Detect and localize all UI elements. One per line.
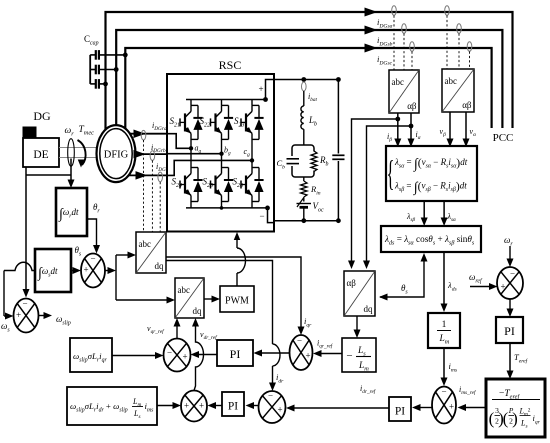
svg-text:αβ: αβ [347, 278, 357, 288]
label theta_s out [75, 245, 82, 258]
wire i_beta tap [348, 117, 400, 269]
wire i_ms [441, 348, 448, 386]
summing junction v_dr [181, 391, 207, 422]
block PI q-axis [217, 340, 253, 366]
summing junction v_qr [164, 339, 191, 372]
summing junction omega [14, 299, 39, 333]
rotor sensor a [141, 130, 146, 232]
summing junction i_dr [259, 391, 286, 424]
voltage sensor at x=469.5 [467, 42, 472, 69]
label i_qr [304, 316, 312, 328]
torque reference formula box [486, 379, 545, 437]
svg-text:+: + [277, 405, 282, 415]
dc link capacitor [332, 80, 344, 221]
voltage sensor at x=447 [445, 6, 450, 69]
label i_DGrb [151, 143, 166, 154]
wire theta_s out [71, 267, 81, 274]
torque arrow [78, 140, 86, 168]
capacitor C_b [287, 156, 300, 166]
IGBT S26 [241, 168, 264, 208]
wire v_alpha [463, 112, 470, 147]
svg-text:αβ: αβ [407, 101, 417, 111]
label v_dr_ref [200, 330, 218, 341]
wire omega_r DE [23, 167, 72, 298]
integrator theta_r box [56, 188, 87, 236]
wire omega_s [4, 262, 35, 319]
label + dc [258, 84, 263, 94]
svg-text:PI: PI [504, 324, 515, 338]
svg-text:+: + [305, 351, 310, 361]
RSC dc+ bus [186, 80, 274, 102]
block -Ls/Lm [342, 338, 376, 373]
svg-text:DG: DG [33, 109, 51, 123]
label i_dr_ref [360, 384, 377, 395]
label S21 [170, 116, 180, 129]
summing junction theta [81, 254, 105, 288]
wire i_ms_ref [458, 404, 487, 411]
summing junction speed [497, 267, 523, 299]
svg-text:+: + [258, 84, 263, 94]
block U2 abc-alphabeta [442, 69, 474, 112]
label i_beta [387, 132, 392, 143]
flux estimator box [386, 146, 477, 201]
label T_eref [514, 352, 529, 364]
block PI d-axis [222, 392, 244, 416]
block PWM [220, 286, 254, 312]
block abc-dq 2 [175, 278, 204, 318]
label S24 [172, 177, 182, 190]
svg-text:−: − [90, 254, 95, 264]
compensation box d [67, 387, 157, 425]
wire theta_s [379, 253, 428, 301]
label i_DGrc [156, 162, 171, 173]
wire phase c_g [167, 160, 252, 175]
wire theta_slip [116, 252, 175, 304]
wire lambda_sbeta [421, 201, 428, 226]
svg-text:−: − [259, 211, 264, 221]
wire stator phase b [116, 26, 502, 129]
wire v_beta [447, 112, 454, 147]
wire speed err [507, 299, 514, 317]
wire leg 0 mid [189, 139, 193, 167]
shaft [59, 148, 97, 158]
svg-text:+: + [199, 401, 204, 411]
label i_alpha [416, 130, 421, 141]
svg-text:PWM: PWM [225, 296, 249, 307]
wire i_beta [394, 113, 401, 147]
svg-text:PI: PI [230, 347, 241, 361]
svg-text:abc: abc [392, 77, 405, 87]
svg-text:−: − [510, 269, 515, 279]
svg-text:1: 1 [442, 320, 447, 330]
wire i_qr_ref [313, 350, 342, 357]
label R_in [310, 184, 321, 196]
svg-text:−: − [268, 391, 273, 401]
wire omega_r [507, 246, 514, 267]
label c_g [244, 147, 251, 158]
svg-text:): ) [512, 409, 518, 428]
wire phase b_g [167, 153, 222, 155]
block abc-dq 1 [136, 232, 166, 273]
wire omega_slip [38, 312, 52, 319]
battery sensor i_bat [302, 82, 307, 91]
label T_mec [79, 125, 95, 137]
svg-text:+: + [449, 402, 454, 412]
svg-text:dq: dq [364, 304, 374, 314]
svg-text:DE: DE [33, 149, 48, 161]
capacitor bank C_cap [90, 50, 128, 89]
IGBT S21 [180, 100, 203, 140]
svg-text:abc: abc [178, 285, 191, 295]
wire to PI3 [412, 404, 432, 411]
block U1 abc-alphabeta [389, 70, 419, 113]
label i_DGsa [377, 17, 393, 29]
label - dc [259, 211, 264, 221]
svg-text:RSC: RSC [219, 58, 242, 72]
current sensor at x=412 [410, 42, 415, 70]
label v_alpha [470, 127, 477, 138]
svg-text:{: { [387, 154, 395, 194]
RSC box [167, 74, 274, 232]
wire stator phase a [106, 8, 513, 130]
current sensor at x=404 [402, 24, 407, 70]
wire v_qr_ref [174, 318, 181, 339]
voltage sensor at x=459 [457, 24, 462, 69]
label S22 [200, 116, 210, 129]
label lambda_sbeta [406, 212, 416, 223]
svg-text:+: + [500, 282, 505, 292]
label theta_r [93, 202, 100, 215]
label DG [33, 109, 51, 123]
wire PWM to RSC [234, 232, 246, 286]
label omega_slip [56, 314, 71, 327]
svg-text:−: − [441, 387, 446, 397]
IGBT S24 [180, 168, 203, 208]
wire rotor phase a [130, 129, 167, 138]
label L_b [308, 115, 317, 128]
label C_b [277, 158, 286, 170]
rotor sensor b [150, 151, 155, 232]
label S23 [234, 116, 244, 129]
svg-text:−: − [22, 299, 27, 309]
label i_DGsc [377, 54, 393, 66]
wire v_dr_ref [192, 318, 204, 391]
wire lambda_ds [441, 252, 448, 312]
wire PI d out [208, 402, 223, 409]
IGBT S25 [211, 168, 234, 208]
svg-text:dq: dq [155, 261, 165, 271]
label omega_r [65, 126, 75, 138]
svg-text:abc: abc [445, 76, 458, 86]
label i_dr [276, 372, 284, 384]
label R_b [319, 155, 329, 168]
label V_oc [313, 201, 324, 214]
wire comp d [157, 402, 181, 409]
summing junction i_qr [290, 335, 313, 370]
battery V_oc [297, 197, 312, 221]
label S25 [203, 177, 213, 190]
svg-text:−: − [346, 350, 352, 362]
wire rotor phase c [129, 171, 168, 180]
svg-text:+: + [83, 265, 88, 275]
wire theta_r [87, 219, 100, 254]
label v_beta [440, 127, 447, 138]
label S26 [233, 177, 243, 190]
IGBT S22 [211, 100, 234, 140]
wire i_dr err [246, 402, 259, 409]
wire leg 2 mid [250, 139, 254, 167]
svg-text:−: − [297, 336, 302, 346]
block PI ms [389, 397, 411, 421]
wire phase a_g [167, 134, 191, 149]
svg-text:+: + [16, 310, 21, 320]
svg-text:+: + [184, 401, 189, 411]
wire i_dr_ref [286, 405, 389, 412]
label C_cap [84, 34, 99, 47]
wire to RC [303, 129, 305, 145]
wire i_alpha [408, 113, 415, 147]
dc- rail [274, 218, 341, 223]
wire battery top [303, 91, 305, 106]
label lambda_salpha [447, 212, 457, 223]
svg-text:−: − [167, 348, 172, 358]
wire RC bottom [303, 177, 305, 181]
block 1/Lm [428, 313, 460, 348]
wire T_eref [507, 343, 514, 379]
wire comp q [112, 352, 164, 359]
wire omega_r shaft [68, 159, 75, 189]
shaft coupling [68, 139, 75, 167]
RSC dc- bus [186, 206, 274, 223]
label theta_s [401, 283, 408, 296]
inductor L_b [301, 106, 304, 129]
current sensor at x=394 [392, 6, 397, 70]
wire i_alpha tap [363, 124, 413, 269]
rotor sensor c [158, 172, 163, 232]
wire theta to blocks [105, 267, 116, 274]
wire i_qr [166, 257, 305, 335]
lambda_ds box [381, 226, 481, 252]
svg-text:DFIG: DFIG [104, 150, 129, 161]
wire to PWM [204, 296, 220, 303]
label omega_ref [469, 272, 483, 285]
RC loop [292, 145, 314, 177]
svg-text:dq: dq [193, 306, 203, 316]
wire stator phase c [125, 44, 491, 130]
svg-text:abc: abc [139, 239, 152, 249]
summing junction i_ms [432, 387, 456, 424]
label i_qr_ref [317, 339, 334, 350]
generator DFIG [97, 125, 136, 182]
label i_ms_ref [459, 385, 477, 396]
block PI speed [496, 317, 523, 343]
label a_g [195, 144, 202, 155]
svg-text:PI: PI [228, 401, 238, 413]
wire leg 1 mid [219, 139, 223, 167]
svg-text:PI: PI [395, 406, 405, 418]
svg-text:PCC: PCC [493, 132, 514, 144]
svg-text:(: ( [489, 409, 495, 428]
wire PI q out [191, 351, 218, 358]
label b_g [224, 145, 231, 156]
integrator theta_s box [35, 249, 71, 292]
label lambda_ds [447, 280, 457, 292]
label RSC [219, 58, 242, 72]
label PCC [493, 132, 514, 144]
wire i_dr [166, 261, 280, 392]
label omega_s [1, 321, 10, 334]
resistor R_b [310, 151, 318, 172]
svg-text:αβ: αβ [462, 100, 472, 110]
wire omega_ref [470, 283, 498, 290]
label i_ms [449, 361, 458, 373]
svg-text:+: + [182, 352, 187, 362]
wire i_qr meas [354, 316, 361, 338]
diesel engine DE [23, 127, 59, 167]
IGBT S23 [241, 100, 264, 140]
label i_bat [308, 92, 318, 103]
wire lambda_salpha [441, 201, 448, 226]
block alphabeta-dq [344, 271, 375, 316]
label omega_r speed [504, 235, 513, 248]
label i_DGra [152, 121, 167, 132]
dc+ rail [274, 77, 341, 82]
wire rotor phase b [134, 150, 168, 159]
wire to PI q [254, 350, 290, 357]
resistor R_in [301, 181, 307, 197]
label v_qr_ref [147, 324, 165, 335]
compensation box q [70, 338, 112, 372]
label i_DGsb [377, 35, 393, 47]
